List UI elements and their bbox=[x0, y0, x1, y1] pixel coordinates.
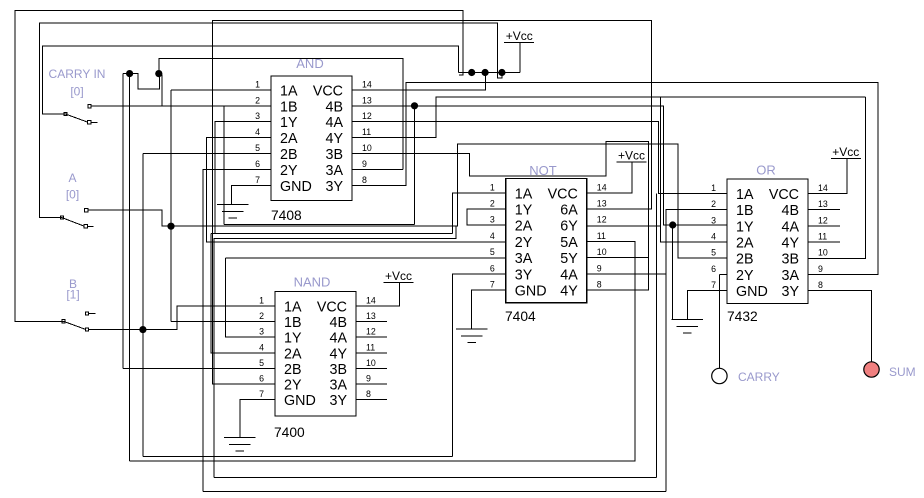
svg-text:4: 4 bbox=[259, 342, 264, 352]
svg-text:2: 2 bbox=[259, 311, 264, 321]
svg-text:13: 13 bbox=[818, 199, 828, 209]
svg-text:12: 12 bbox=[597, 215, 607, 225]
svg-text:+Vcc: +Vcc bbox=[385, 269, 412, 283]
svg-text:3B: 3B bbox=[782, 252, 800, 268]
svg-text:VCC: VCC bbox=[548, 186, 578, 202]
svg-text:GND: GND bbox=[280, 179, 312, 195]
svg-text:9: 9 bbox=[362, 159, 367, 169]
svg-text:OR: OR bbox=[756, 163, 776, 178]
svg-text:8: 8 bbox=[818, 280, 823, 290]
svg-text:5: 5 bbox=[711, 248, 716, 258]
svg-text:11: 11 bbox=[818, 231, 827, 241]
svg-text:10: 10 bbox=[362, 143, 372, 153]
svg-text:1: 1 bbox=[711, 183, 716, 193]
svg-text:1Y: 1Y bbox=[284, 331, 302, 347]
svg-text:GND: GND bbox=[515, 284, 547, 300]
svg-text:3Y: 3Y bbox=[515, 267, 533, 283]
svg-text:4B: 4B bbox=[330, 315, 348, 331]
svg-text:6Y: 6Y bbox=[560, 219, 578, 235]
svg-text:3B: 3B bbox=[326, 147, 344, 163]
svg-text:3A: 3A bbox=[326, 163, 344, 179]
svg-text:3: 3 bbox=[490, 215, 495, 225]
svg-text:1: 1 bbox=[255, 79, 260, 89]
svg-text:6: 6 bbox=[259, 374, 264, 384]
svg-text:7: 7 bbox=[711, 280, 716, 290]
svg-text:GND: GND bbox=[284, 393, 316, 409]
svg-text:6: 6 bbox=[255, 159, 260, 169]
svg-text:CARRY: CARRY bbox=[738, 370, 780, 384]
svg-text:7400: 7400 bbox=[274, 425, 305, 440]
svg-text:9: 9 bbox=[366, 374, 371, 384]
svg-text:4: 4 bbox=[711, 231, 716, 241]
svg-text:1B: 1B bbox=[736, 203, 754, 219]
svg-text:4Y: 4Y bbox=[326, 131, 344, 147]
svg-text:3Y: 3Y bbox=[782, 284, 800, 300]
svg-text:A: A bbox=[68, 171, 76, 185]
svg-text:3Y: 3Y bbox=[326, 179, 344, 195]
svg-text:1A: 1A bbox=[280, 83, 298, 99]
svg-text:4B: 4B bbox=[782, 203, 800, 219]
svg-text:3: 3 bbox=[259, 327, 264, 337]
svg-text:4Y: 4Y bbox=[560, 284, 578, 300]
svg-text:11: 11 bbox=[366, 342, 375, 352]
svg-text:5: 5 bbox=[259, 358, 264, 368]
svg-text:5: 5 bbox=[490, 247, 495, 257]
svg-text:2Y: 2Y bbox=[515, 235, 533, 251]
svg-text:13: 13 bbox=[366, 311, 376, 321]
svg-text:3Y: 3Y bbox=[330, 393, 348, 409]
svg-text:3A: 3A bbox=[782, 268, 800, 284]
svg-text:14: 14 bbox=[362, 79, 372, 89]
svg-text:9: 9 bbox=[597, 263, 602, 273]
svg-text:2Y: 2Y bbox=[284, 378, 302, 394]
svg-text:2A: 2A bbox=[280, 131, 298, 147]
svg-text:6: 6 bbox=[490, 263, 495, 273]
svg-text:10: 10 bbox=[818, 248, 828, 258]
svg-text:13: 13 bbox=[362, 95, 372, 105]
svg-text:2A: 2A bbox=[284, 346, 302, 362]
svg-text:1A: 1A bbox=[284, 300, 302, 316]
svg-text:VCC: VCC bbox=[313, 83, 343, 99]
svg-text:5: 5 bbox=[255, 143, 260, 153]
svg-text:4: 4 bbox=[255, 127, 260, 137]
svg-text:CARRY IN: CARRY IN bbox=[49, 67, 106, 81]
svg-text:3A: 3A bbox=[515, 251, 533, 267]
svg-text:7408: 7408 bbox=[271, 208, 302, 223]
svg-text:+Vcc: +Vcc bbox=[618, 149, 645, 163]
svg-text:10: 10 bbox=[366, 358, 376, 368]
svg-text:7404: 7404 bbox=[505, 309, 536, 324]
svg-text:5Y: 5Y bbox=[560, 251, 578, 267]
svg-text:10: 10 bbox=[597, 247, 607, 257]
svg-text:3B: 3B bbox=[330, 362, 348, 378]
svg-text:8: 8 bbox=[366, 389, 371, 399]
svg-text:7: 7 bbox=[255, 175, 260, 185]
svg-text:7432: 7432 bbox=[727, 309, 758, 324]
svg-text:[0]: [0] bbox=[66, 188, 79, 202]
svg-text:2B: 2B bbox=[736, 252, 754, 268]
svg-text:VCC: VCC bbox=[769, 187, 799, 203]
svg-text:2A: 2A bbox=[515, 219, 533, 235]
svg-text:12: 12 bbox=[366, 327, 376, 337]
svg-text:2B: 2B bbox=[280, 147, 298, 163]
svg-text:2: 2 bbox=[711, 199, 716, 209]
svg-text:12: 12 bbox=[362, 111, 372, 121]
svg-text:1: 1 bbox=[259, 296, 264, 306]
svg-text:14: 14 bbox=[597, 182, 607, 192]
svg-text:GND: GND bbox=[736, 284, 768, 300]
svg-text:4A: 4A bbox=[782, 219, 800, 235]
svg-text:1B: 1B bbox=[280, 99, 298, 115]
svg-text:1A: 1A bbox=[515, 186, 533, 202]
svg-text:+Vcc: +Vcc bbox=[832, 145, 859, 159]
svg-text:2Y: 2Y bbox=[736, 268, 754, 284]
svg-text:SUM: SUM bbox=[889, 365, 916, 379]
svg-text:6: 6 bbox=[711, 264, 716, 274]
svg-text:5A: 5A bbox=[560, 235, 578, 251]
svg-text:4A: 4A bbox=[330, 331, 348, 347]
svg-text:1: 1 bbox=[490, 182, 495, 192]
svg-text:NAND: NAND bbox=[294, 275, 331, 290]
svg-text:14: 14 bbox=[818, 183, 828, 193]
svg-text:[1]: [1] bbox=[66, 288, 79, 302]
svg-text:1B: 1B bbox=[284, 315, 302, 331]
svg-text:14: 14 bbox=[366, 296, 376, 306]
svg-text:1A: 1A bbox=[736, 187, 754, 203]
svg-text:4A: 4A bbox=[560, 267, 578, 283]
svg-text:[0]: [0] bbox=[70, 85, 83, 99]
svg-text:VCC: VCC bbox=[317, 300, 347, 316]
svg-text:12: 12 bbox=[818, 215, 828, 225]
svg-text:4: 4 bbox=[490, 231, 495, 241]
svg-text:2B: 2B bbox=[284, 362, 302, 378]
svg-text:3A: 3A bbox=[330, 378, 348, 394]
svg-text:4Y: 4Y bbox=[782, 235, 800, 251]
svg-text:2: 2 bbox=[490, 199, 495, 209]
svg-text:4A: 4A bbox=[326, 115, 344, 131]
svg-text:7: 7 bbox=[259, 389, 264, 399]
svg-text:+Vcc: +Vcc bbox=[506, 29, 533, 43]
svg-text:6A: 6A bbox=[560, 203, 578, 219]
svg-text:1Y: 1Y bbox=[736, 219, 754, 235]
svg-text:2Y: 2Y bbox=[280, 163, 298, 179]
svg-text:4Y: 4Y bbox=[330, 346, 348, 362]
svg-text:1Y: 1Y bbox=[515, 203, 533, 219]
svg-text:3: 3 bbox=[711, 215, 716, 225]
svg-text:4B: 4B bbox=[326, 99, 344, 115]
svg-text:7: 7 bbox=[490, 280, 495, 290]
svg-text:8: 8 bbox=[362, 175, 367, 185]
svg-text:2: 2 bbox=[255, 95, 260, 105]
svg-text:3: 3 bbox=[255, 111, 260, 121]
svg-text:13: 13 bbox=[597, 199, 607, 209]
svg-text:1Y: 1Y bbox=[280, 115, 298, 131]
svg-text:11: 11 bbox=[597, 231, 606, 241]
svg-text:2A: 2A bbox=[736, 235, 754, 251]
svg-text:11: 11 bbox=[362, 127, 371, 137]
svg-text:8: 8 bbox=[597, 280, 602, 290]
svg-text:9: 9 bbox=[818, 264, 823, 274]
